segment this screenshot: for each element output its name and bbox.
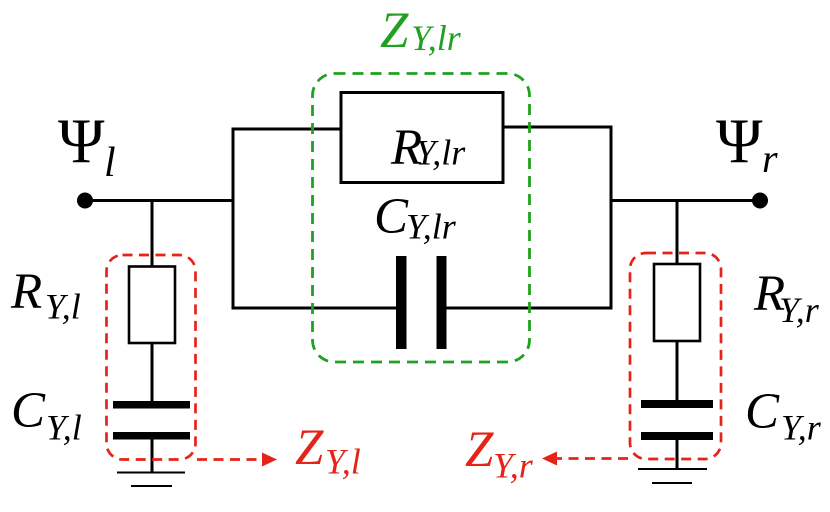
svg-text:Y,r: Y,r [781, 408, 822, 448]
svg-text:C: C [374, 189, 409, 245]
svg-text:Ψ: Ψ [716, 106, 763, 176]
svg-text:Y,l: Y,l [45, 287, 81, 327]
svg-text:Y,r: Y,r [779, 290, 820, 330]
svg-text:Ψ: Ψ [58, 106, 105, 176]
svg-text:Y,lr: Y,lr [416, 133, 467, 173]
svg-text:C: C [745, 384, 780, 440]
svg-text:Y,lr: Y,lr [406, 207, 457, 247]
svg-text:Y,l: Y,l [46, 408, 82, 448]
svg-text:Z: Z [465, 422, 494, 478]
svg-text:C: C [11, 383, 46, 439]
svg-text:Y,r: Y,r [493, 446, 534, 486]
svg-text:l: l [104, 140, 116, 186]
svg-text:Y,lr: Y,lr [411, 18, 462, 58]
svg-text:R: R [10, 264, 42, 320]
svg-text:Z: Z [380, 3, 409, 59]
svg-text:r: r [762, 136, 778, 181]
svg-text:Z: Z [295, 420, 324, 476]
svg-text:Y,l: Y,l [325, 442, 361, 482]
